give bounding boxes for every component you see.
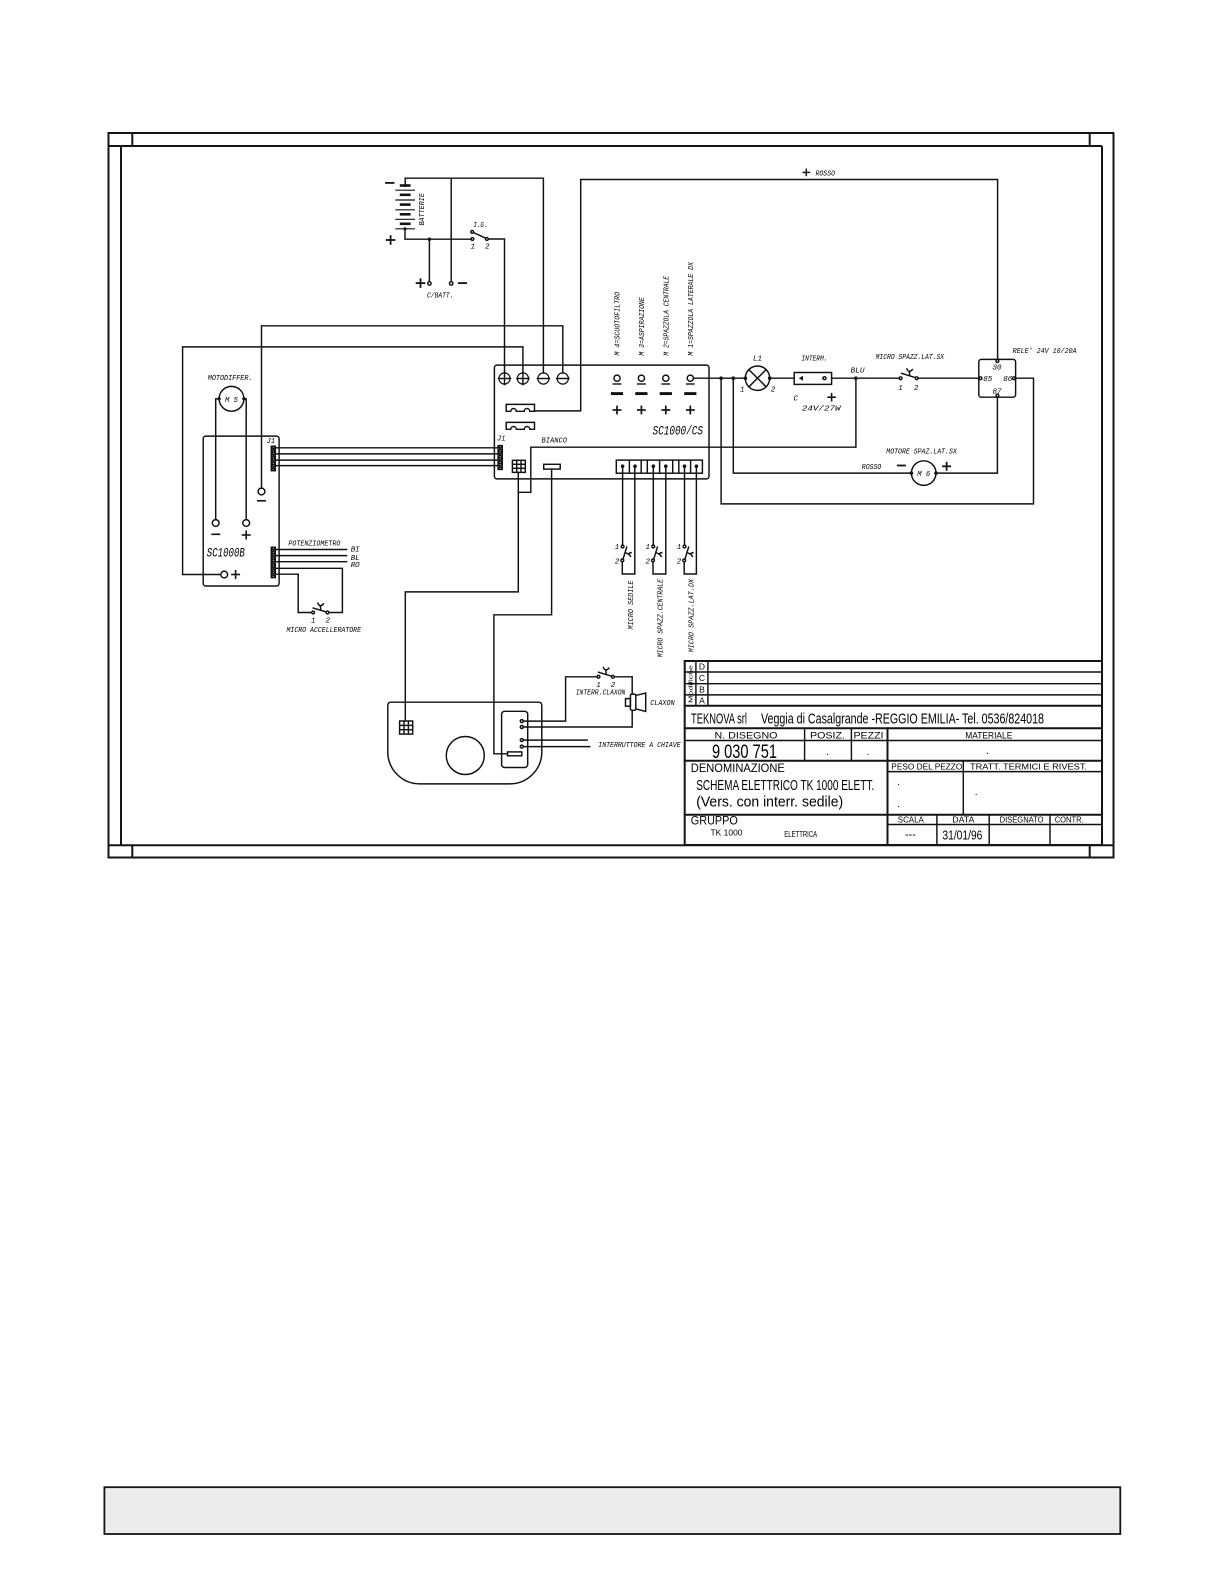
- wire I.G. to SC1000/CS terminal 1: [488, 239, 504, 373]
- wire battery minus top to SC1000/CS terminal 3: [405, 178, 543, 373]
- svg-text:C/BATT.: C/BATT.: [427, 293, 454, 301]
- motor output M2 terminal: [660, 375, 672, 414]
- screw terminal 4 (-): [556, 373, 570, 384]
- terminal - (to CS term 4): [257, 488, 266, 501]
- flasher INTERM.: [794, 373, 831, 385]
- svg-text:2: 2: [677, 558, 682, 566]
- svg-text:2: 2: [771, 387, 776, 395]
- svg-text:.: .: [986, 746, 989, 757]
- battery minus sign: [385, 182, 394, 184]
- wire lamp to INTERM: [770, 377, 795, 379]
- wire key contact1 to interr.claxon: [523, 677, 597, 721]
- svg-text:1: 1: [740, 387, 745, 395]
- wire battery top to C/BATT - terminal: [450, 178, 452, 282]
- svg-text:87: 87: [993, 389, 1003, 397]
- svg-text:M 4=SCUOTOFILTRO: M 4=SCUOTOFILTRO: [615, 291, 623, 355]
- svg-text:M 5: M 5: [225, 397, 238, 405]
- wire +ROSSO loop from fuse to relay pin 30: [535, 180, 998, 411]
- +ROSSO plus sign: [803, 169, 811, 177]
- terminal + (to CS term 2): [221, 570, 240, 579]
- svg-text:---: ---: [905, 829, 916, 841]
- peso del pezzo / tratt. termici header: [888, 771, 1103, 773]
- connector strip (6 pins): [616, 460, 702, 473]
- key panel box: [502, 711, 528, 767]
- svg-text:2: 2: [646, 558, 651, 566]
- wire micro spazz.lat.dx contact2 U-loop to strip pin6: [684, 466, 696, 574]
- node battery+/C.BATT junction: [428, 238, 431, 241]
- wire junction to C/BATT + terminal: [428, 239, 430, 282]
- C/BATT plus sign: [416, 278, 426, 288]
- svg-text:BLU: BLU: [851, 367, 866, 375]
- connector J1 (SC1000/CS side): [498, 446, 502, 470]
- relay RELE' 24V 10/20A: [979, 359, 1016, 397]
- connector J1 (SC1000B side): [271, 446, 275, 471]
- svg-text:INTERRUTTORE A CHIAVE: INTERRUTTORE A CHIAVE: [598, 742, 681, 750]
- battery plus sign: [386, 235, 396, 245]
- wire M5 left to SC1000B - terminal: [216, 399, 219, 520]
- connector C/BATT. - terminal: [450, 282, 453, 285]
- svg-text:DISEGNATO: DISEGNATO: [1000, 815, 1044, 824]
- svg-text:1: 1: [471, 244, 476, 252]
- motor output M1 terminal: [684, 375, 696, 414]
- svg-text:L1: L1: [753, 355, 762, 363]
- wire key contact2 to claxon speaker: [523, 711, 632, 727]
- svg-text:M 1=SPAZZOLA LATERALE DX: M 1=SPAZZOLA LATERALE DX: [688, 262, 696, 356]
- svg-text:1: 1: [646, 544, 651, 552]
- svg-text:B: B: [699, 684, 705, 694]
- bottom gray band: [104, 1487, 1120, 1534]
- machine outline: [388, 702, 542, 784]
- svg-text:Modifiche: Modifiche: [688, 665, 694, 703]
- svg-text:M 6: M 6: [917, 471, 930, 479]
- svg-text:CONTR.: CONTR.: [1055, 815, 1084, 824]
- motor output M3 terminal: [635, 375, 647, 414]
- wire switch to relay 85: [918, 377, 979, 379]
- svg-text:1: 1: [677, 544, 682, 552]
- wire battery plus to I.G.: [405, 229, 471, 239]
- wire BIANCO to key contact: [494, 469, 552, 754]
- wire micro sedile contact2 U-loop to strip pin2: [622, 466, 635, 574]
- svg-text:1: 1: [311, 618, 316, 626]
- svg-text:SC1000/CS: SC1000/CS: [653, 424, 704, 439]
- wire bundle J1 to J1 (4 wires): [275, 448, 498, 466]
- wire micro spazz.centrale contact2 U-loop to strip pin4: [653, 466, 666, 574]
- connector grid (SC1000/CS): [512, 460, 525, 472]
- svg-text:MATERIALE: MATERIALE: [965, 731, 1012, 742]
- switch MICRO SEDILE: [621, 545, 632, 562]
- header row N.DISEGNO POSIZ PEZZI MATERIALE: [685, 728, 1102, 845]
- svg-text:ROSSO: ROSSO: [816, 171, 836, 179]
- svg-text:.: .: [867, 747, 870, 758]
- wire pot pin4 to micro accelleratore contact 2: [275, 568, 342, 612]
- terminal - (M5 left): [211, 520, 220, 535]
- svg-text:PEZZI: PEZZI: [854, 731, 884, 742]
- svg-text:MICRO SEDILE: MICRO SEDILE: [628, 580, 636, 629]
- svg-text:A: A: [699, 695, 705, 705]
- wire SC1000B minus to SC1000/CS terminal 4: [262, 326, 563, 488]
- wire BI: [275, 549, 347, 551]
- svg-text:2: 2: [485, 244, 490, 252]
- key panel contact circles: [520, 720, 523, 749]
- wire relay 87 to motor M6 plus: [937, 397, 997, 473]
- revision table Modifiche: [685, 661, 1102, 706]
- key contact rectangle: [508, 752, 522, 756]
- terminal + (M5 right): [242, 520, 251, 540]
- svg-text:M 3=ASPIRAZIONE: M 3=ASPIRAZIONE: [639, 297, 647, 356]
- svg-text:ROSSO: ROSSO: [862, 464, 882, 472]
- speaker CLAXON: [626, 693, 646, 711]
- company row TEKNOVA: [685, 712, 1102, 729]
- svg-text:MICRO SPAZZ.LAT.SX: MICRO SPAZZ.LAT.SX: [876, 354, 945, 362]
- svg-text:2: 2: [914, 385, 919, 393]
- svg-text:Veggia di Casalgrande -REGGIO: Veggia di Casalgrande -REGGIO EMILIA- Te…: [761, 712, 1044, 728]
- svg-text:MOTODIFFER.: MOTODIFFER.: [208, 375, 253, 383]
- svg-text:GRUPPO: GRUPPO: [691, 816, 738, 828]
- connector C/BATT. + terminal: [428, 282, 431, 285]
- screw terminal 2 (+): [516, 372, 530, 386]
- svg-text:BI: BI: [351, 547, 360, 555]
- svg-text:C: C: [794, 395, 799, 403]
- frame corner tick bottom-left: [131, 845, 133, 857]
- title block outline: [685, 661, 1102, 845]
- wire strip pin3 down to micro spazz.centrale: [652, 466, 654, 545]
- svg-text:MOTORE SPAZ.LAT.SX: MOTORE SPAZ.LAT.SX: [886, 448, 957, 456]
- machine wheel circle: [446, 737, 484, 775]
- svg-text:PESO DEL PEZZO: PESO DEL PEZZO: [891, 762, 962, 771]
- svg-text:1: 1: [898, 385, 903, 393]
- frame corner tick bottom-right: [1089, 845, 1091, 857]
- wire INTERM to micro spazz.lat.sx: [832, 377, 900, 379]
- switch MICRO SPAZZ.CENTRALE: [652, 545, 663, 562]
- svg-text:MICRO SPAZZ.CENTRALE: MICRO SPAZZ.CENTRALE: [658, 578, 666, 657]
- svg-text:2: 2: [326, 618, 331, 626]
- interm plus sign: [827, 393, 836, 402]
- svg-text:24V/27W: 24V/27W: [802, 406, 842, 414]
- svg-text:2: 2: [615, 558, 620, 566]
- svg-text:POSIZ.: POSIZ.: [810, 731, 845, 742]
- svg-text:31/01/96: 31/01/96: [942, 829, 982, 843]
- wire motor M6 minus to junction B: [733, 378, 910, 473]
- connector POTENZIOMETRO (5 pins): [271, 547, 275, 577]
- battery BATTERIE: [395, 178, 415, 230]
- switch MICRO ACCELLERATORE: [312, 603, 329, 614]
- svg-text:D: D: [699, 662, 705, 672]
- svg-text:30: 30: [993, 364, 1003, 372]
- switch INTERR.CLAXON: [597, 667, 614, 678]
- fuse 2: [506, 422, 534, 429]
- motor M6 minus sign: [897, 465, 906, 467]
- switch I.G.: [471, 231, 488, 241]
- wire M1 terminal to lamp L1: [694, 377, 744, 379]
- machine grid connector: [400, 721, 413, 734]
- wire RO: [275, 561, 347, 563]
- frame corner tick top-left: [131, 133, 133, 146]
- svg-text:I.G.: I.G.: [473, 222, 487, 230]
- drawing frame outer border: [109, 133, 1114, 858]
- motor output M4 terminal: [611, 375, 623, 414]
- wire pot pin5 to micro accelleratore contact 1: [275, 574, 311, 612]
- svg-text:M 2=SPAZZOLA CENTRALE: M 2=SPAZZOLA CENTRALE: [663, 275, 671, 355]
- lamp L1: [744, 366, 772, 390]
- node junction B (to motor M6 loop): [732, 376, 736, 380]
- svg-text:J1: J1: [267, 438, 276, 446]
- TITLE BLOCK: [685, 661, 1102, 845]
- svg-text:ELETTRICA: ELETTRICA: [784, 830, 817, 839]
- switch MICRO SPAZZ.LAT.DX: [683, 545, 694, 562]
- wire key contact4 (interruttore a chiave): [523, 746, 590, 748]
- svg-text:(Vers. con interr. sedile): (Vers. con interr. sedile): [696, 795, 843, 811]
- svg-text:1: 1: [615, 544, 620, 552]
- box SC1000/CS: [494, 365, 709, 479]
- fuse 1: [506, 404, 534, 411]
- wire relay 86 loop to junction A: [721, 378, 1033, 504]
- wire SC1000B plus to SC1000/CS terminal 2: [183, 347, 523, 575]
- svg-text:INTERM.: INTERM.: [801, 355, 827, 363]
- svg-text:RO: RO: [351, 562, 360, 570]
- svg-text:.: .: [975, 787, 978, 798]
- node BLU: [854, 376, 858, 380]
- svg-text:TRATT. TERMICI E RIVEST.: TRATT. TERMICI E RIVEST.: [970, 762, 1087, 771]
- box SC1000B: [203, 436, 279, 586]
- motor M5 MOTODIFFER.: [217, 386, 245, 411]
- motor M6 plus sign: [942, 462, 951, 471]
- drawing frame inner border: [109, 146, 1114, 845]
- svg-text:N. DISEGNO: N. DISEGNO: [715, 731, 778, 742]
- svg-text:85: 85: [983, 376, 993, 384]
- wire strip pin5 down to micro spazz.lat.dx: [684, 466, 686, 545]
- wire grid branch to BLU node: [518, 378, 856, 492]
- svg-text:.: .: [826, 747, 829, 758]
- svg-text:TEKNOVA srl: TEKNOVA srl: [691, 712, 747, 728]
- denominazione section: [691, 761, 1102, 815]
- node junction A (to relay 86 loop): [719, 376, 723, 380]
- wire key contact3 (interruttore a chiave): [523, 739, 588, 741]
- switch MICRO SPAZZ.LAT.SX: [899, 368, 918, 379]
- svg-text:DATA: DATA: [952, 815, 975, 824]
- svg-text:RELE' 24V 10/20A: RELE' 24V 10/20A: [1013, 348, 1077, 356]
- svg-text:86: 86: [1003, 376, 1013, 384]
- svg-text:.: .: [897, 777, 900, 788]
- wire M5 right to SC1000B + terminal: [244, 399, 246, 520]
- wire grid down to machine grid: [405, 472, 518, 721]
- screw terminal 3 (-): [537, 373, 551, 384]
- svg-text:INTERR.CLAXON: INTERR.CLAXON: [576, 689, 626, 697]
- svg-text:MICRO ACCELLERATORE: MICRO ACCELLERATORE: [287, 627, 362, 635]
- svg-text:TK 1000: TK 1000: [711, 829, 744, 838]
- svg-text:SCHEMA ELETTRICO TK 1000 ELETT: SCHEMA ELETTRICO TK 1000 ELETT.: [696, 778, 874, 794]
- svg-text:.: .: [897, 799, 900, 810]
- svg-text:POTENZIOMETRO: POTENZIOMETRO: [288, 540, 340, 548]
- screw terminal 1 (+): [498, 372, 512, 386]
- svg-text:BATTERIE: BATTERIE: [419, 193, 427, 226]
- motor M6 MOTORE SPAZ.LAT.SX: [910, 461, 938, 486]
- strip pin dots: [621, 464, 698, 468]
- frame corner tick top-right: [1089, 133, 1091, 146]
- svg-text:C: C: [699, 673, 705, 683]
- wire strip pin1 down to micro sedile: [622, 466, 624, 545]
- svg-text:SC1000B: SC1000B: [207, 546, 245, 561]
- wire BL: [275, 555, 347, 557]
- wire interr.claxon to speaker: [614, 677, 632, 694]
- svg-text:DENOMINAZIONE: DENOMINAZIONE: [691, 763, 785, 775]
- svg-text:J1: J1: [497, 435, 506, 443]
- svg-text:MICRO SPAZZ.LAT.DX: MICRO SPAZZ.LAT.DX: [688, 578, 696, 652]
- svg-text:SCALA: SCALA: [898, 815, 925, 824]
- gruppo / scala row: [685, 815, 1102, 845]
- jumper BIANCO: [544, 464, 561, 469]
- svg-text:9 030 751: 9 030 751: [712, 742, 777, 763]
- svg-text:BIANCO: BIANCO: [542, 438, 568, 446]
- C/BATT minus sign: [458, 282, 467, 284]
- svg-text:CLAXON: CLAXON: [650, 700, 675, 708]
